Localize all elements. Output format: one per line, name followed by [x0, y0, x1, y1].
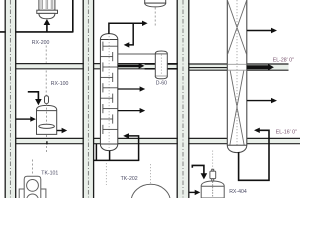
svg-text:RX-404: RX-404: [229, 189, 247, 195]
svg-text:TK-101: TK-101: [41, 170, 58, 176]
svg-text:RX-100: RX-100: [51, 81, 69, 87]
svg-text:TK-202: TK-202: [121, 176, 138, 182]
svg-text:EL-16' 0": EL-16' 0": [276, 129, 297, 135]
svg-text:D-60: D-60: [156, 81, 167, 87]
svg-text:EL-28' 0": EL-28' 0": [273, 57, 294, 63]
svg-text:RX-200: RX-200: [32, 40, 50, 46]
